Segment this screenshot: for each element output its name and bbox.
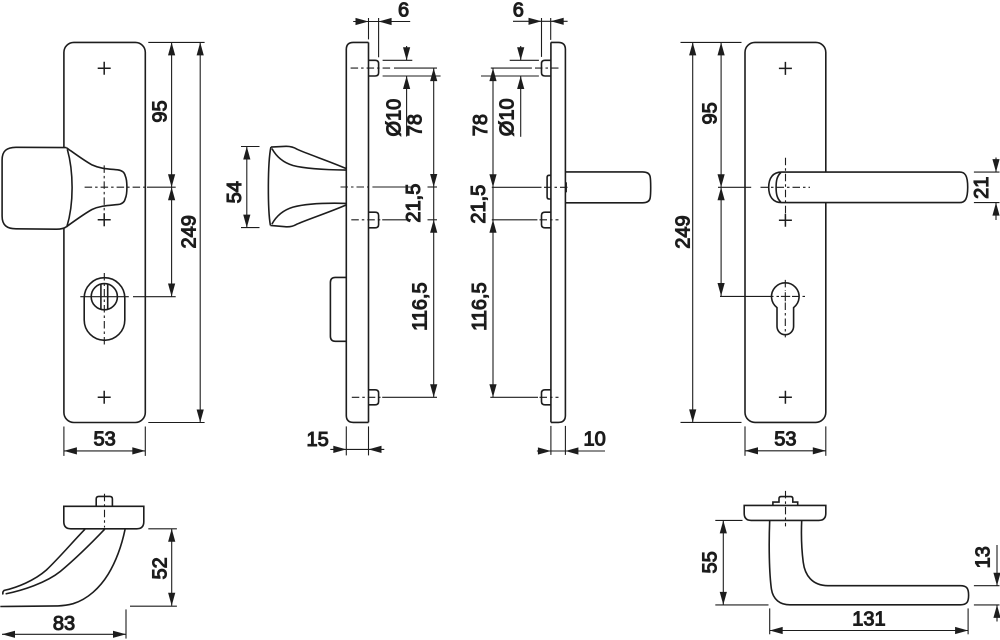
extension lines V4 — [681, 42, 742, 422]
svg-text:6: 6 — [513, 0, 524, 22]
centerline V2 lower boss — [351, 219, 437, 221]
dimension axis-to-cylinder V4 — [718, 187, 725, 296]
screw boss V2 top — [369, 60, 379, 76]
dimension 15 V2 — [307, 426, 385, 455]
cylinder centerlines V1 — [80, 273, 175, 345]
dimension knob-to-cylinder V1 — [168, 187, 175, 296]
centerline V3 lower boss — [492, 219, 559, 221]
cylinder rosette V1 — [84, 278, 125, 341]
dimension 95 V1 — [149, 42, 175, 187]
euro cylinder hole V4 — [772, 283, 800, 335]
dimension 21 V4 — [971, 158, 1000, 221]
dimension 131 — [770, 608, 968, 634]
dimension 52 — [130, 529, 177, 606]
svg-text:95: 95 — [699, 102, 721, 124]
svg-text:13: 13 — [973, 546, 995, 568]
dimension 95 V4 — [699, 42, 724, 187]
svg-text:95: 95 — [149, 100, 171, 122]
dimension 10 V3 — [537, 426, 606, 455]
dimension 21,5 V3 — [468, 185, 497, 233]
plate V3 profile — [551, 42, 566, 422]
screw boss V3 top — [542, 60, 551, 76]
knob V1 silhouette mask — [2, 147, 127, 229]
centerline V2 bottom boss — [352, 396, 437, 398]
dimension 55 — [700, 520, 769, 605]
dimension 6 V2 — [353, 0, 410, 57]
svg-text:10: 10 — [584, 429, 606, 451]
cylinder crosshair V4 — [720, 280, 808, 338]
crosshair lever axis V4 — [718, 158, 810, 224]
knob collar bottom view — [64, 506, 144, 529]
screw cross V1 below knob — [98, 213, 111, 226]
svg-text:53: 53 — [774, 428, 796, 450]
plate V2 profile — [346, 42, 368, 422]
dimension 54 knob height — [224, 147, 260, 228]
dimension 21,5 V2 — [403, 184, 437, 233]
knob V1 neck — [66, 148, 127, 227]
svg-text:21: 21 — [971, 177, 993, 199]
screw cross V1 top — [98, 62, 111, 75]
lever grip bottom view — [769, 520, 968, 604]
dimension Ø10 V3 — [481, 46, 539, 137]
lever V4 front — [769, 172, 968, 203]
centerline V2 top boss — [351, 67, 437, 69]
screw cross V4 below axis — [779, 214, 792, 227]
knob spindle nub bottom view — [96, 496, 112, 506]
dimension 53 V4 — [745, 426, 826, 455]
centerline V3 top boss — [491, 67, 559, 69]
screw boss V2 middle — [369, 212, 379, 228]
knob V1 head — [2, 147, 72, 229]
centerline knob axis V1 — [85, 165, 176, 226]
svg-text:15: 15 — [307, 429, 329, 451]
dimension 116,5 V3 — [469, 282, 497, 397]
svg-text:131: 131 — [852, 608, 885, 630]
svg-text:249: 249 — [178, 215, 200, 248]
dimension 83 — [2, 609, 126, 638]
screw cross V1 bottom — [98, 391, 111, 404]
svg-text:78: 78 — [470, 114, 492, 136]
screw boss V3 lower — [542, 212, 551, 228]
screw boss V2 bottom — [369, 390, 379, 405]
svg-text:116,5: 116,5 — [469, 282, 491, 331]
svg-text:54: 54 — [224, 181, 246, 203]
plate V4 outline — [745, 42, 826, 422]
dimension 78 V2 — [404, 68, 437, 397]
screw boss V3 bottom — [542, 390, 551, 405]
svg-text:83: 83 — [53, 613, 75, 635]
svg-text:249: 249 — [672, 215, 694, 248]
centerline V2 knob axis — [341, 186, 438, 188]
lever nub centerline — [785, 491, 787, 527]
svg-text:53: 53 — [93, 428, 115, 450]
dimension Ø10 V2 — [383, 46, 441, 137]
screw cross V4 top — [779, 62, 792, 75]
svg-text:116,5: 116,5 — [410, 282, 432, 331]
lever collar bottom view — [744, 505, 826, 520]
plate V1 outline — [64, 42, 145, 422]
dimension 78 V3 — [470, 68, 497, 397]
centerline V3 bottom boss — [490, 396, 558, 398]
knob V2 profile — [268, 146, 346, 227]
lever spindle nub bottom view — [773, 497, 798, 506]
dimension 13 — [973, 545, 1000, 622]
svg-text:21,5: 21,5 — [403, 184, 425, 223]
knob grip bottom view — [0, 529, 125, 606]
dimension 53 V1 — [64, 427, 145, 456]
cylinder cover V2 profile — [330, 277, 346, 341]
centerline V3 lever axis — [492, 182, 570, 192]
svg-text:6: 6 — [398, 0, 409, 22]
svg-text:55: 55 — [700, 551, 722, 573]
extension lines V1 top and bottom — [148, 42, 204, 422]
spindle boss V3 middle — [547, 175, 551, 199]
svg-text:21,5: 21,5 — [468, 185, 490, 224]
svg-text:Ø10: Ø10 — [384, 99, 406, 137]
dimension 249 V1 — [178, 42, 204, 422]
lever V3 profile — [565, 172, 650, 203]
svg-text:Ø10: Ø10 — [497, 98, 519, 136]
dimension 249 V4 — [672, 42, 696, 422]
svg-text:78: 78 — [404, 114, 426, 136]
svg-text:52: 52 — [149, 557, 171, 579]
knob nub centerline — [104, 494, 106, 528]
screw cross V4 bottom — [779, 391, 792, 404]
dimension 116,5 V2 — [410, 282, 438, 397]
dimension 6 V3 — [513, 0, 568, 57]
